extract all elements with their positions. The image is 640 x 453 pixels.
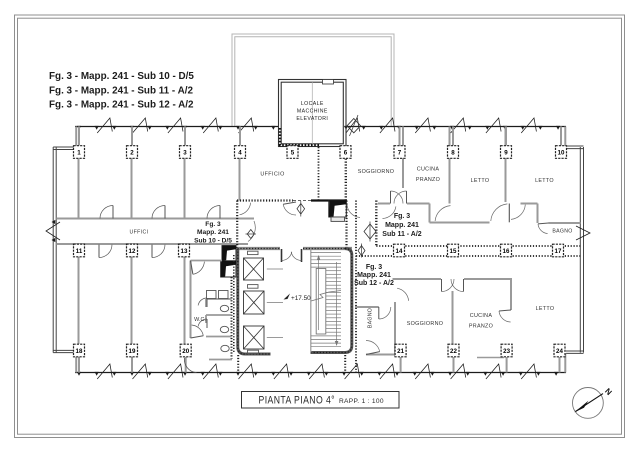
wc toilet 1: [220, 305, 228, 311]
wall left exterior (double): [52, 147, 54, 353]
elevator 3: [244, 326, 265, 349]
svg-text:15: 15: [450, 248, 457, 255]
svg-text:20: 20: [182, 348, 189, 355]
elevator lobby separators: [248, 251, 259, 254]
machine room LOCALE MACCHINE ELEVATORI: [279, 80, 347, 147]
svg-text:Mapp. 241: Mapp. 241: [197, 229, 229, 236]
wall bottom exterior: [75, 372, 566, 374]
window zigzags top wall: [77, 126, 81, 130]
svg-text:SOGGIORNO: SOGGIORNO: [358, 169, 395, 175]
door box 12: [127, 244, 138, 257]
svg-text:19: 19: [129, 348, 136, 355]
dotted wall right of stairs: [355, 201, 357, 373]
svg-text:PIANTA PIANO 4°: PIANTA PIANO 4°: [259, 395, 336, 407]
door office 1: [100, 206, 113, 219]
elevator door marks: [267, 268, 283, 270]
wall left bottom step: [53, 349, 76, 351]
wc left wall: [190, 261, 192, 339]
dotted hatch left of elevator shaft: [233, 255, 235, 352]
wall left top step: [53, 146, 76, 148]
door box 14: [394, 244, 405, 257]
corridor wall upper: [56, 218, 254, 220]
svg-text:Fg. 3: Fg. 3: [205, 221, 221, 228]
core top wall: [238, 247, 281, 250]
sub11 window symbol party wall (diamond): [364, 224, 376, 239]
window box 6: [340, 146, 351, 159]
door office 3: [207, 206, 220, 219]
window box 1: [74, 146, 85, 159]
svg-text:LOCALE: LOCALE: [301, 101, 324, 107]
sub12 kitchen counter: [477, 357, 504, 359]
hall vent diamond: [297, 204, 305, 215]
wc sinks: [207, 291, 217, 299]
hatched wall below window 6: [345, 147, 347, 201]
stubs below bottom boxes: [78, 357, 80, 373]
stub connecting bottom wall to left wall: [75, 353, 77, 373]
svg-text:Fg. 3 - Mapp. 241 - Sub 12 - A: Fg. 3 - Mapp. 241 - Sub 12 - A/2: [49, 99, 194, 110]
svg-text:23: 23: [503, 348, 510, 355]
window box 23: [501, 344, 512, 357]
sub11 hall arc at cucina wall: [435, 206, 450, 221]
svg-text:BAGNO: BAGNO: [552, 229, 572, 235]
title block: [242, 392, 400, 409]
window box 20: [180, 344, 191, 357]
stub bottom-right corner: [564, 353, 566, 372]
svg-text:8: 8: [451, 149, 455, 156]
wall right bottom step: [566, 350, 584, 352]
window box 2: [127, 146, 138, 159]
door box 16: [501, 244, 512, 257]
sub11 double door soggiorno: [390, 191, 392, 204]
svg-text:LETTO: LETTO: [535, 178, 554, 184]
window box 8: [448, 146, 459, 159]
svg-text:CUCINA: CUCINA: [417, 167, 440, 173]
door box 11: [74, 244, 85, 257]
diamond symbol near locale corner: [347, 119, 360, 133]
corridor vent diamond: [358, 246, 365, 256]
stair break line: [311, 291, 341, 302]
window chevron right wall: [576, 226, 590, 240]
svg-text:3: 3: [183, 149, 187, 156]
door below box 20: [184, 358, 196, 373]
window box 7: [394, 146, 405, 159]
svg-text:5: 5: [291, 149, 295, 156]
svg-text:Sub 11 - A/2: Sub 11 - A/2: [382, 231, 422, 238]
window box 24: [554, 344, 565, 357]
hall door left: [240, 203, 251, 215]
dotted corridor wall lower: [356, 255, 580, 257]
stair enclosure: [311, 249, 352, 353]
svg-text:ELEVATORI: ELEVATORI: [296, 116, 328, 122]
svg-text:11: 11: [76, 248, 83, 255]
svg-text:6: 6: [344, 149, 348, 156]
elevator shaft enclosure: [238, 249, 271, 355]
svg-text:Fg. 3 - Mapp. 241 - Sub 11 - A: Fg. 3 - Mapp. 241 - Sub 11 - A/2: [49, 85, 193, 96]
wall top exterior left part: [75, 126, 278, 128]
sub12 hall door arc: [397, 288, 409, 301]
wall top exterior right part: [346, 126, 566, 128]
window box 18: [74, 344, 85, 357]
svg-text:LETTO: LETTO: [471, 178, 490, 184]
svg-text:CUCINA: CUCINA: [470, 313, 493, 319]
dotted corridor wall upper: [376, 245, 580, 247]
sub11 partition soggiorno/cucina: [402, 127, 404, 189]
svg-text:LETTO: LETTO: [536, 306, 555, 312]
svg-text:17: 17: [555, 248, 562, 255]
office partition walls upper: [78, 159, 80, 219]
sub11 doors hall (double swing at x=509): [508, 204, 510, 223]
wc partition walls: [206, 298, 232, 300]
window box 4: [235, 146, 246, 159]
sub12 top wall: [393, 278, 442, 280]
svg-text:Mapp. 241: Mapp. 241: [385, 222, 419, 229]
machine room roof hatch: [323, 80, 334, 85]
svg-text:Mapp. 241: Mapp. 241: [357, 272, 391, 279]
wc bottom wall: [209, 359, 232, 361]
elevator 1: [244, 258, 264, 280]
svg-text:Sub 10 - D/5: Sub 10 - D/5: [194, 238, 232, 245]
stair arrows: [318, 256, 320, 330]
svg-text:24: 24: [556, 348, 563, 355]
svg-text:UFFICIO: UFFICIO: [260, 172, 284, 178]
svg-text:UFFICI: UFFICI: [129, 230, 148, 236]
svg-text:PRANZO: PRANZO: [469, 324, 493, 330]
shaft black duct (wc top): [222, 246, 236, 261]
core dotted wall below stairs: [344, 355, 346, 373]
wc top wall: [191, 260, 223, 262]
sub12 bagno right wall: [394, 302, 396, 357]
window zigzags bottom wall: [77, 372, 81, 376]
hall door: [283, 204, 296, 215]
svg-text:Sub 12 - A/2: Sub 12 - A/2: [354, 280, 394, 287]
window box 22: [448, 344, 459, 357]
door box 17: [553, 244, 564, 257]
corridor end vent diamond: [247, 230, 254, 239]
door box 15: [448, 244, 459, 257]
svg-text:21: 21: [397, 348, 404, 355]
corridor end door: [248, 221, 255, 242]
level label +17.50: [284, 294, 291, 300]
door soggiorno to shaft room: [347, 205, 360, 218]
door office 2: [152, 206, 165, 219]
wc dotted right wall: [231, 277, 233, 359]
svg-text:13: 13: [181, 248, 188, 255]
machine room centerline: [311, 82, 313, 144]
sub12 bagno bottom wall: [366, 354, 395, 356]
svg-text:2: 2: [130, 149, 134, 156]
hall left dotted wall: [236, 201, 238, 249]
door lower office 1: [99, 245, 112, 258]
window box 10: [556, 146, 567, 159]
svg-text:Fg. 3: Fg. 3: [394, 213, 410, 220]
sub12 wall soggiorno/cucina: [452, 291, 454, 346]
sub11 hall arc below double door: [383, 206, 396, 218]
machine room hatched walls: [279, 128, 282, 145]
shaft black duct (wc lower): [221, 261, 236, 277]
svg-text:9: 9: [504, 149, 508, 156]
wc doors: [193, 262, 205, 275]
stair treads: [311, 252, 341, 254]
svg-text:7: 7: [398, 149, 402, 156]
north compass: [573, 388, 604, 419]
sub12 bagno top wall: [355, 306, 379, 308]
dotted partition below window 5: [318, 147, 320, 201]
wc toilet 3: [221, 345, 229, 351]
wall right top step: [566, 145, 584, 147]
wc toilet 2: [220, 326, 228, 332]
core dotted wall below elevators: [237, 355, 239, 373]
svg-text:10: 10: [558, 149, 565, 156]
sub11 hatched party wall: [375, 201, 377, 247]
wall below window 4: [239, 159, 241, 201]
svg-text:Fg. 3: Fg. 3: [366, 264, 382, 271]
svg-text:BAGNO: BAGNO: [368, 308, 374, 328]
svg-text:16: 16: [503, 248, 510, 255]
door box 13: [179, 244, 190, 257]
svg-text:SOGGIORNO: SOGGIORNO: [407, 321, 444, 327]
shaft black duct (hall): [329, 200, 347, 217]
wall right exterior (double): [579, 147, 581, 353]
svg-text:PRANZO: PRANZO: [416, 177, 440, 183]
roof projection outline: [232, 34, 394, 126]
svg-text:+17.50: +17.50: [291, 295, 311, 302]
sub12 bagno door top: [379, 307, 391, 319]
sub12 double door: [441, 279, 443, 292]
stub top-right corner: [564, 127, 566, 147]
window box 21: [395, 344, 406, 357]
core double door: [281, 249, 283, 262]
svg-text:RAPP. 1 : 100: RAPP. 1 : 100: [339, 398, 384, 405]
door lower office 2: [152, 245, 165, 258]
svg-text:MACCHINE: MACCHINE: [297, 109, 328, 115]
sub12 bagno door bottom: [366, 341, 380, 352]
window box 9: [501, 146, 512, 159]
window chevron left wall: [46, 222, 60, 240]
sub12 wall cucina/letto: [510, 279, 512, 310]
hall top dotted wall: [237, 199, 293, 201]
elevator 2: [244, 291, 265, 314]
office partition walls lower: [78, 257, 80, 344]
stub connecting top wall to left wall: [75, 127, 77, 148]
sub11 hall wall: [378, 203, 390, 205]
svg-text:14: 14: [396, 248, 403, 255]
svg-text:4: 4: [238, 149, 242, 156]
window box 19: [127, 344, 138, 357]
sub11 partition cucina/letto: [449, 127, 451, 204]
window box 3: [180, 146, 191, 159]
sub11 bagno walls: [537, 204, 539, 224]
svg-text:22: 22: [450, 348, 457, 355]
sub11 partition letto/letto: [505, 127, 507, 203]
corridor wall lower: [56, 243, 248, 245]
svg-text:18: 18: [76, 348, 83, 355]
hall right dotted wall: [345, 201, 347, 249]
window stubs (grey) for numbered boxes: [78, 127, 80, 146]
window box 5: [287, 146, 298, 159]
stair well: [316, 269, 326, 335]
svg-text:1: 1: [77, 149, 81, 156]
svg-text:Fg. 3 - Mapp. 241 - Sub 10 - D: Fg. 3 - Mapp. 241 - Sub 10 - D/5: [49, 71, 194, 82]
svg-text:12: 12: [129, 248, 136, 255]
